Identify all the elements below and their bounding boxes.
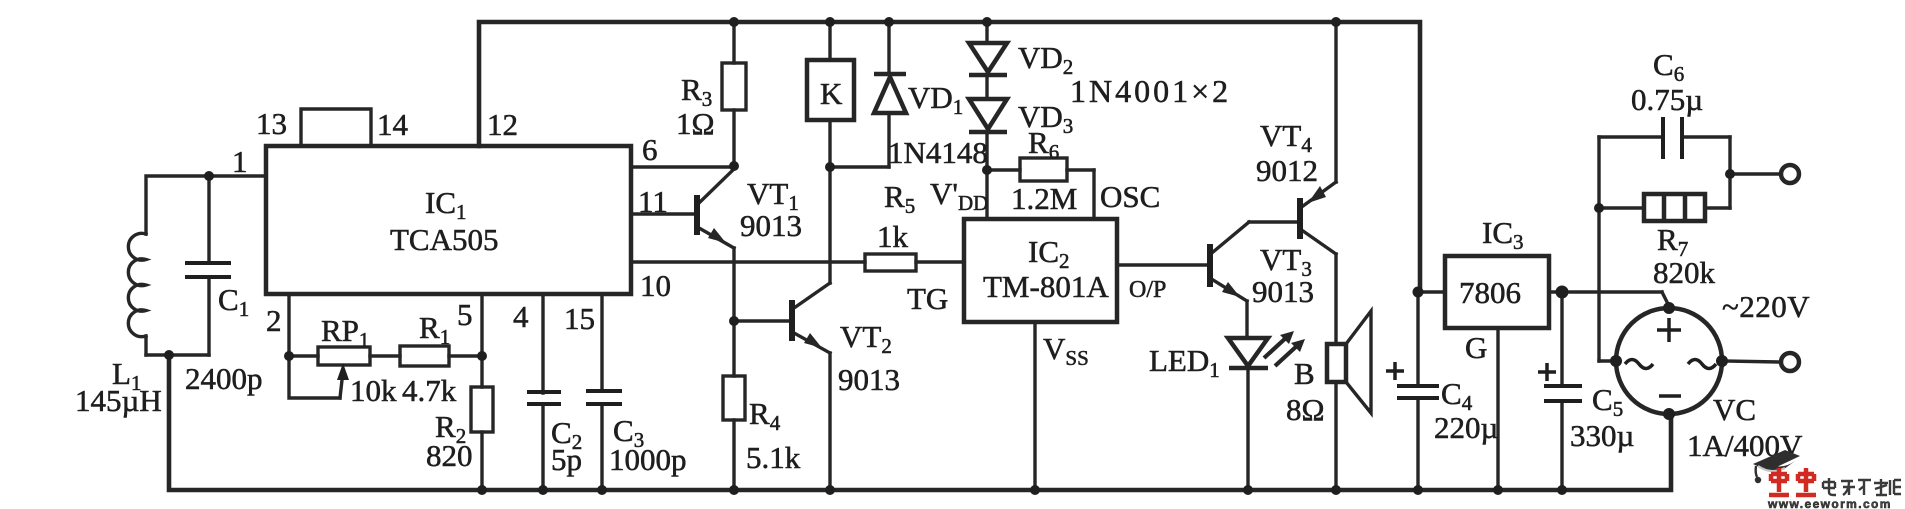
svg-text:1000p: 1000p (609, 442, 687, 477)
svg-text:TG: TG (907, 281, 948, 316)
svg-text:220µ: 220µ (1434, 410, 1498, 445)
svg-text:1.2M: 1.2M (1011, 181, 1077, 216)
svg-text:5.1k: 5.1k (746, 440, 801, 475)
svg-text:5p: 5p (551, 442, 582, 477)
svg-text:6: 6 (642, 132, 658, 167)
svg-text:9012: 9012 (1256, 153, 1318, 188)
svg-text:K: K (820, 76, 843, 111)
svg-text:9013: 9013 (838, 362, 900, 397)
svg-text:15: 15 (564, 301, 595, 336)
svg-text:LED1: LED1 (1149, 343, 1220, 382)
svg-text:4: 4 (513, 299, 529, 334)
svg-text:145µH: 145µH (75, 383, 162, 418)
svg-text:OSC: OSC (1100, 179, 1160, 214)
svg-text:1k: 1k (877, 219, 909, 254)
svg-text:9013: 9013 (1252, 274, 1314, 309)
svg-text:1N4001×2: 1N4001×2 (1070, 73, 1231, 109)
svg-text:VC: VC (1713, 392, 1756, 427)
svg-text:820: 820 (426, 438, 473, 473)
svg-text:O/P: O/P (1129, 277, 1166, 303)
svg-text:11: 11 (638, 184, 668, 219)
svg-text:8Ω: 8Ω (1286, 392, 1325, 427)
svg-text:B: B (1294, 356, 1315, 391)
svg-text:7806: 7806 (1459, 275, 1521, 310)
svg-text:13: 13 (256, 106, 287, 141)
svg-text:4.7k: 4.7k (402, 373, 457, 408)
svg-text:2400p: 2400p (185, 361, 263, 396)
svg-text:820k: 820k (1653, 255, 1716, 290)
svg-text:TM-801A: TM-801A (983, 269, 1109, 304)
svg-text:1Ω: 1Ω (676, 106, 715, 141)
svg-text:2: 2 (266, 303, 282, 338)
svg-text:14: 14 (377, 107, 409, 142)
svg-text:1N4148: 1N4148 (888, 135, 988, 170)
svg-text:330µ: 330µ (1570, 418, 1634, 453)
svg-text:TCA505: TCA505 (390, 222, 499, 257)
svg-text:10k: 10k (350, 373, 397, 408)
svg-text:0.75µ: 0.75µ (1631, 82, 1703, 117)
svg-text:10: 10 (640, 268, 671, 303)
svg-text:12: 12 (487, 107, 518, 142)
svg-text:5: 5 (457, 297, 473, 332)
svg-text:9013: 9013 (740, 208, 802, 243)
svg-text:G: G (1465, 330, 1487, 365)
svg-text:1: 1 (232, 144, 248, 179)
svg-text:~220V: ~220V (1722, 289, 1810, 324)
svg-text:www.eeworm.com: www.eeworm.com (1767, 497, 1892, 509)
